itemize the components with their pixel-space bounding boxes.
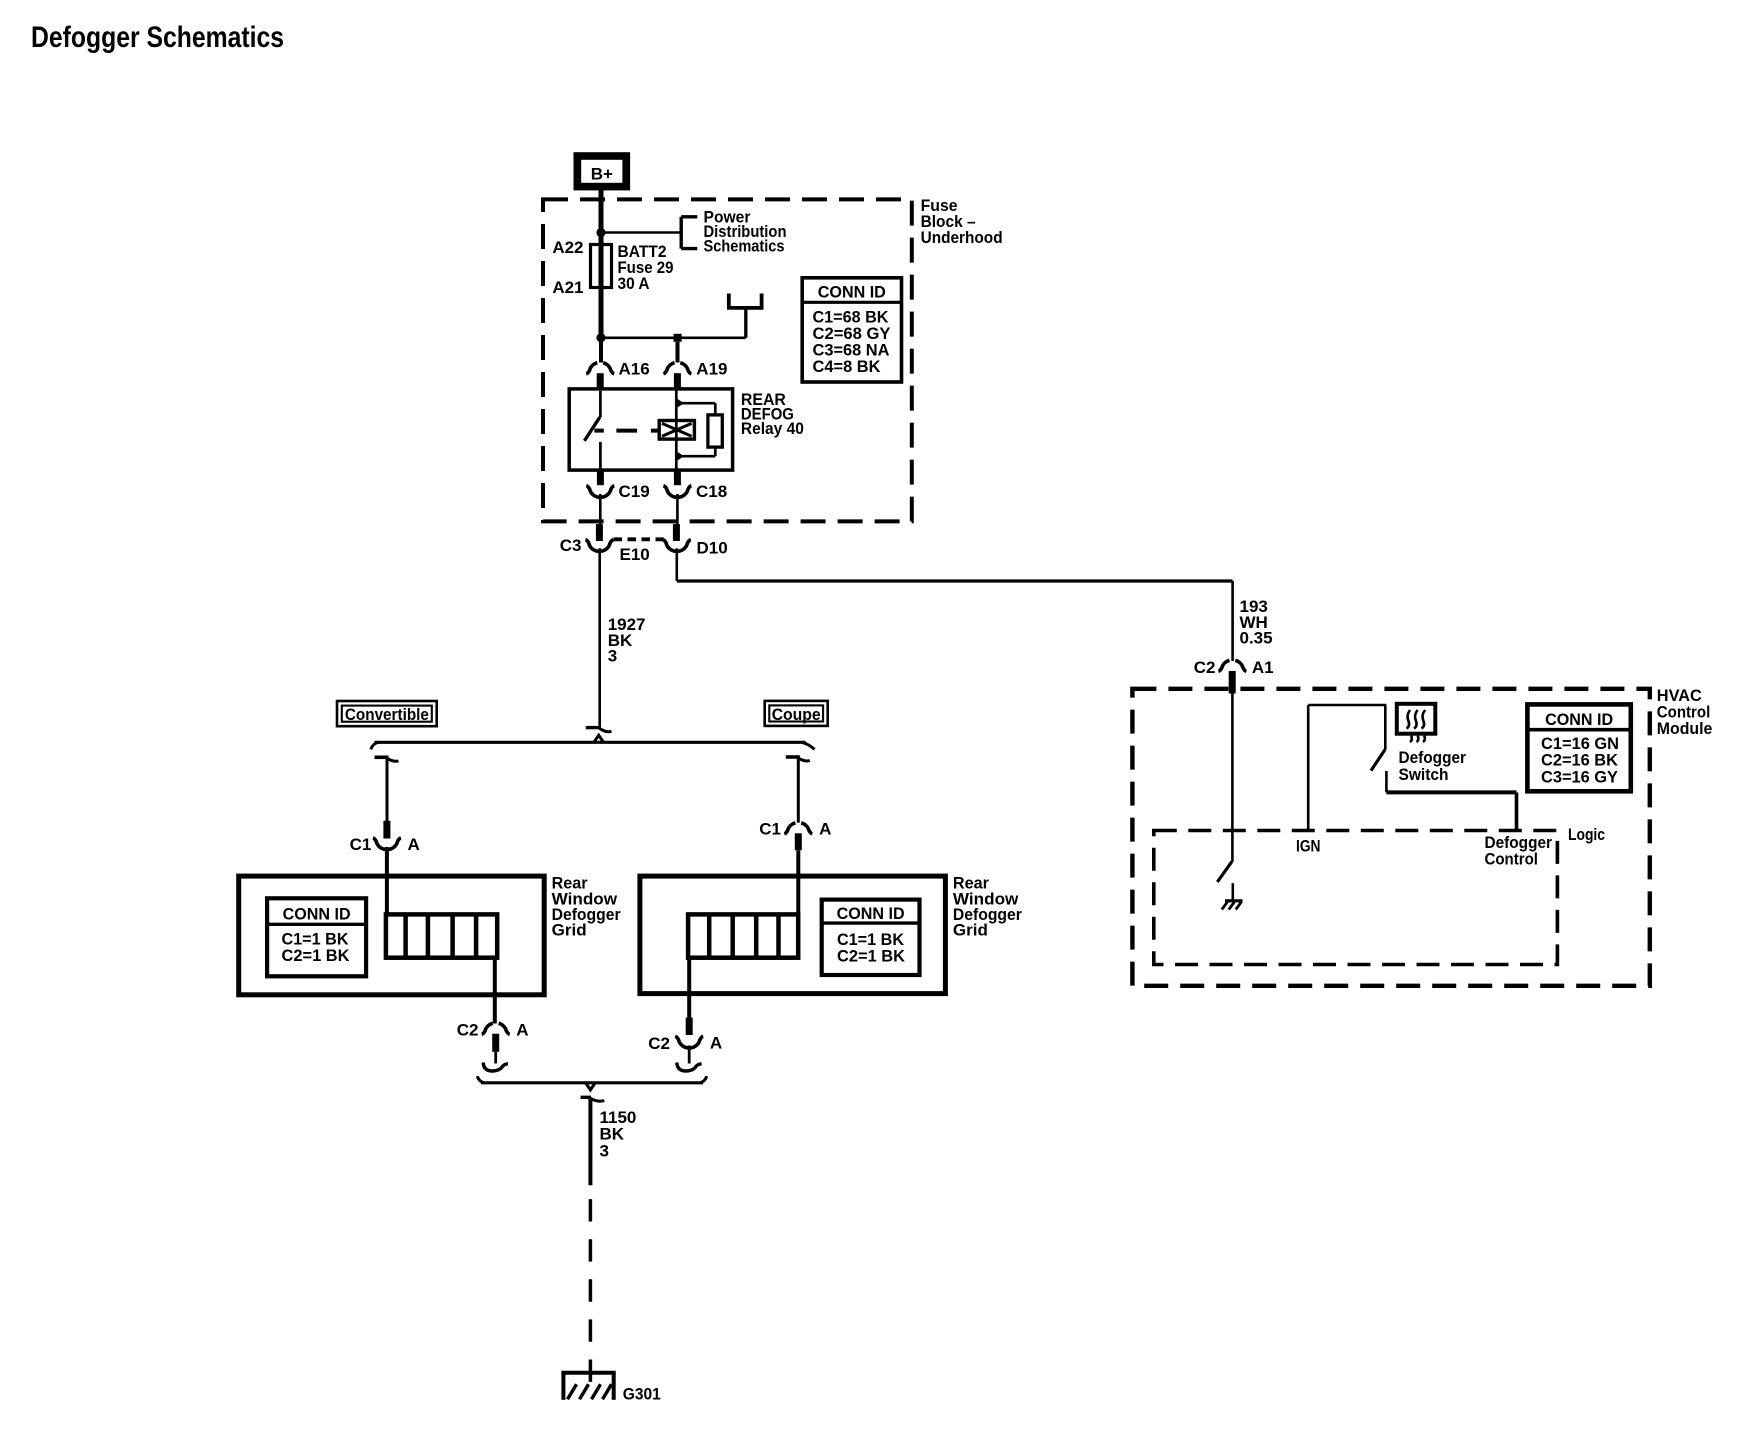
HVAC control module dashed enclosure — [1132, 689, 1649, 986]
svg-text:3: 3 — [600, 1141, 609, 1160]
svg-text:Convertible: Convertible — [345, 705, 429, 724]
wire: coupe branch drop — [797, 757, 800, 823]
defogger grid element (left) — [386, 914, 497, 957]
relay switch contact — [584, 391, 603, 469]
connector C19 — [586, 486, 614, 498]
svg-text:C4=8 BK: C4=8 BK — [813, 357, 882, 376]
wire: B+ feed vertical — [599, 190, 604, 233]
label Rear Window Defogger Grid (left) — [552, 874, 621, 940]
connector C18 — [663, 486, 691, 498]
svg-text:CONN ID: CONN ID — [818, 283, 886, 302]
logic block dashed enclosure — [1154, 831, 1558, 965]
wire end curl coupe branch — [786, 755, 800, 759]
wire: dashed ground run — [589, 1199, 593, 1384]
inline connector dashed boundary E10-D10 — [614, 537, 664, 541]
label Power Distribution Schematics — [704, 207, 787, 255]
wire: C18 to fuse block edge — [676, 494, 679, 524]
relay coil resistor element — [708, 415, 722, 447]
junction node at A19 branch — [674, 334, 682, 342]
svg-text:Schematics: Schematics — [704, 237, 785, 256]
wire label 1927 BK 3 — [608, 615, 646, 665]
connector ID table (fuse block) — [802, 278, 901, 382]
ground G301 — [561, 1373, 615, 1400]
wire: relay coil return to C18 — [674, 470, 681, 485]
label Fuse Block - Underhood — [921, 196, 1003, 247]
label Rear Window Defogger Grid (right) — [953, 874, 1022, 940]
svg-text:CONN ID: CONN ID — [1545, 710, 1613, 729]
svg-text:A1: A1 — [1252, 658, 1274, 677]
connector C3/E10 stub — [596, 524, 603, 541]
wire: drop to defogger switch — [1384, 705, 1387, 750]
svg-text:Logic: Logic — [1568, 825, 1605, 844]
junction arrow lower coil branch — [677, 452, 684, 461]
svg-text:C2: C2 — [457, 1020, 479, 1039]
rear window defogger grid box (coupe) — [640, 876, 946, 994]
svg-text:A19: A19 — [696, 359, 727, 378]
wire 1150 BK 3 vertical — [588, 1099, 592, 1186]
svg-text:Switch: Switch — [1399, 765, 1449, 784]
svg-text:30 A: 30 A — [618, 274, 650, 293]
relay actuator dashed link — [616, 429, 658, 433]
svg-text:C18: C18 — [696, 482, 727, 501]
connector ID table (right grid) — [822, 900, 920, 975]
wire label 1150 BK 3 — [600, 1108, 637, 1161]
connector ID table (HVAC) — [1527, 704, 1630, 791]
svg-text:A: A — [819, 819, 831, 838]
wire: convertible branch drop — [386, 757, 389, 821]
wire end curl (convertible C2) — [483, 1063, 508, 1072]
fuse value label BATT2 Fuse 29 30 A — [618, 242, 674, 293]
defogger switch icon — [1397, 704, 1436, 742]
svg-text:CONN ID: CONN ID — [283, 905, 351, 924]
fuse BATT2 Fuse 29 30A — [591, 245, 612, 288]
wire: drop to connector A16 — [599, 338, 603, 363]
label Defogger Switch — [1399, 748, 1467, 784]
wire 1927 BK 3 vertical — [598, 548, 601, 727]
variant box Convertible — [337, 701, 437, 726]
wire: drop to connector A19 — [676, 342, 680, 363]
wire: A1 into module internal switch — [1231, 693, 1234, 862]
wire: switch to ground — [1232, 883, 1235, 900]
svg-text:Defogger Schematics: Defogger Schematics — [31, 21, 284, 54]
svg-text:Underhood: Underhood — [921, 228, 1003, 247]
continuation socket symbol (to other circuits) — [727, 294, 764, 308]
variant box Coupe — [765, 701, 828, 726]
relay REAR DEFOG Relay 40 box — [569, 389, 732, 470]
wire: D10 down to bend — [675, 548, 678, 581]
svg-text:0.35: 0.35 — [1240, 629, 1273, 648]
wire 193 drop to connector A1 — [1231, 581, 1234, 661]
wire end curl (coupe C2) — [677, 1063, 702, 1072]
svg-text:IGN: IGN — [1296, 836, 1321, 855]
svg-text:A16: A16 — [619, 359, 650, 378]
wire: upper coil branch — [676, 403, 715, 415]
wire end curl below bottom brace — [581, 1097, 605, 1101]
connector C1 (convertible) — [373, 821, 401, 850]
wire end curl convertible branch — [375, 755, 389, 759]
svg-text:C3=16 GY: C3=16 GY — [1541, 768, 1619, 787]
svg-text:3: 3 — [608, 647, 617, 666]
wire: below convertible C2 — [494, 1052, 497, 1064]
svg-text:G301: G301 — [623, 1384, 661, 1403]
wire label 193 WH 0.35 — [1240, 597, 1273, 647]
svg-text:Relay 40: Relay 40 — [741, 419, 804, 438]
junction node at power distribution tap — [596, 228, 605, 237]
svg-text:A: A — [516, 1020, 528, 1039]
wire: C1 into right grid — [796, 850, 800, 914]
svg-text:C2=1 BK: C2=1 BK — [282, 946, 351, 965]
wire: C19 to fuse block edge — [599, 494, 602, 524]
internal ground symbol — [1222, 901, 1243, 910]
svg-text:E10: E10 — [620, 545, 650, 564]
connector A16 — [586, 363, 614, 390]
wire 193 horizontal run to HVAC — [677, 579, 1233, 582]
wire: switch lower terminal — [1385, 771, 1388, 792]
connector C2 (coupe) — [675, 1018, 703, 1048]
harness option brace (top) — [371, 735, 815, 749]
wire: tap to power distribution bracket — [601, 231, 681, 234]
defogger switch blade — [1371, 750, 1385, 771]
label REAR DEFOG Relay 40 — [741, 390, 804, 438]
wire: lower coil branch — [676, 447, 715, 456]
wire: horizontal branch to relay coil feed — [601, 336, 746, 339]
wire: defogger control run — [1386, 790, 1516, 794]
wire: relay coil vertical through solenoid — [675, 390, 678, 469]
svg-text:A22: A22 — [552, 238, 583, 257]
wire: riser to continuation socket — [744, 308, 747, 338]
connector D10 stub — [673, 524, 680, 541]
junction arrow upper coil branch — [677, 399, 684, 408]
wire: C1 into left grid — [385, 847, 389, 914]
svg-text:C1: C1 — [759, 819, 781, 838]
junction node below fuse — [596, 333, 605, 342]
connector ID table (left grid) — [267, 898, 366, 976]
svg-text:Coupe: Coupe — [772, 705, 821, 724]
svg-text:C1: C1 — [350, 835, 372, 854]
svg-text:C2=1 BK: C2=1 BK — [837, 947, 906, 966]
connector C2 (convertible) — [482, 1023, 510, 1051]
harness option brace (bottom) — [477, 1076, 706, 1090]
battery feed B+ box — [574, 152, 631, 190]
svg-text:Grid: Grid — [953, 921, 988, 940]
svg-text:A: A — [710, 1034, 722, 1053]
wire: IGN top run — [1308, 704, 1386, 707]
relay solenoid element — [659, 421, 694, 440]
wire: relay output to C19 — [597, 470, 604, 485]
rear window defogger grid box (convertible) — [239, 876, 545, 995]
svg-text:A21: A21 — [552, 278, 583, 297]
connector C1 (coupe) — [784, 823, 812, 850]
connector C3/E10 — [585, 540, 613, 552]
internal ground switch blade — [1217, 862, 1232, 882]
svg-text:Control: Control — [1485, 849, 1539, 868]
wire: drop to logic block — [1515, 792, 1519, 830]
svg-text:C19: C19 — [619, 482, 650, 501]
svg-text:D10: D10 — [697, 539, 728, 558]
connector A19 — [663, 363, 691, 390]
svg-text:CONN ID: CONN ID — [837, 904, 905, 923]
label HVAC Control Module — [1657, 686, 1713, 738]
connector D10 — [663, 540, 691, 552]
wire: right grid output — [687, 958, 691, 1018]
label Defogger Control — [1485, 833, 1553, 868]
svg-text:C2: C2 — [1194, 658, 1216, 677]
power distribution schematics bracket — [681, 217, 697, 249]
wire: left grid output — [493, 958, 497, 1024]
svg-text:C2: C2 — [648, 1034, 670, 1053]
svg-text:B+: B+ — [591, 164, 613, 183]
defogger grid element (right) — [688, 914, 798, 957]
wire: below coupe C2 — [688, 1046, 691, 1064]
fuse block underhood dashed enclosure — [543, 199, 912, 521]
connector C2/A1 — [1218, 660, 1246, 693]
wire: through fuse down to relay feed junction — [599, 233, 604, 338]
svg-text:Module: Module — [1657, 719, 1713, 738]
wire: IGN riser — [1307, 705, 1310, 831]
svg-text:Grid: Grid — [552, 921, 587, 940]
svg-text:C3: C3 — [560, 536, 582, 555]
wire end curl above brace — [586, 728, 612, 732]
svg-text:A: A — [408, 835, 420, 854]
